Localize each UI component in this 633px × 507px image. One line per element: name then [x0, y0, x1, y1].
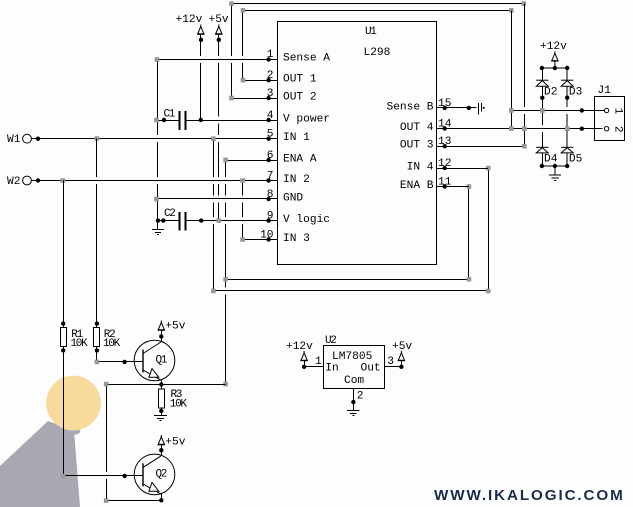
wire vertical OUT2 riser x=231.5	[231, 4, 233, 99]
wire corner square (565,126.4)	[565, 126, 570, 131]
junction dot (268.6,199)	[266, 197, 270, 201]
wire vertical x=106.2 emitters link	[106, 385, 108, 501]
svg-text:1: 1	[611, 108, 623, 115]
wire vertical x=524.3	[524, 4, 526, 147]
junction dot (444.7,107.9)	[443, 106, 447, 110]
junction dot (554.9,166)	[553, 164, 557, 168]
svg-text:W1: W1	[7, 134, 21, 146]
svg-text:D2: D2	[544, 87, 557, 99]
wire corner squares right section	[509, 108, 570, 148]
svg-text:OUT 4: OUT 4	[400, 122, 434, 134]
wire bridge bottom rail y=165.1	[542, 165, 567, 167]
wire bottom wrap y=291	[213, 290, 488, 292]
junction dot (161.3,384.5)	[159, 382, 163, 386]
light beam wedge (decor underlay)	[0, 421, 80, 507]
junction dot (63.2,323.6)	[61, 321, 65, 325]
wire corner square (522,143.9)	[522, 144, 527, 149]
wire Q2 base row y=475.9	[63, 475, 143, 477]
junction dot (38,138.7)	[36, 137, 40, 141]
wire U2 ground stem	[353, 402, 355, 410]
svg-text:C2: C2	[164, 208, 175, 220]
junction dot (268.6,160)	[266, 158, 270, 162]
junction dot (353.4,402.1)	[351, 400, 355, 404]
ground below bridge	[554, 166, 556, 175]
wire pin8 row GND	[157, 198, 277, 200]
wire J1 row1 y=110.5	[511, 110, 604, 112]
wire pin3 row OUT 2	[232, 98, 278, 100]
wire U2 +12v stem	[304, 360, 306, 367]
junction dot (268.6,80.2)	[266, 78, 270, 82]
svg-text:ENA B: ENA B	[400, 180, 434, 192]
junction dot (581.8,128.7)	[580, 127, 584, 131]
wire U2 pin2 bottom stem	[353, 388, 355, 402]
svg-text:Sense B: Sense B	[387, 102, 434, 114]
wire pin15 row Sense B	[437, 107, 477, 109]
wire corner square (229.2,95.7)	[229, 96, 234, 101]
junction dots top section	[36, 38, 271, 242]
svg-text:Out: Out	[361, 362, 381, 374]
resistor R3	[159, 389, 165, 408]
svg-text:ENA A: ENA A	[283, 154, 317, 166]
wire corner square (60.9,473.6)	[61, 474, 66, 479]
U2 junction dots	[302, 365, 404, 405]
junction dot (268.6,120)	[266, 118, 270, 122]
junction dot (468.8,107.9)	[467, 106, 471, 110]
wire corner square (216.5,218.3)	[217, 218, 222, 223]
junction dot (96.9,350.4)	[95, 348, 99, 352]
power arrow +5v U2	[398, 351, 405, 361]
wire pin1 row Sense A	[156, 59, 277, 61]
wire Q1 emitter row y=384.1	[106, 384, 225, 386]
ground under C2	[157, 221, 159, 230]
connector W1	[23, 134, 32, 143]
junction dot (161.3,500.3)	[159, 498, 163, 502]
diode D3	[561, 80, 573, 86]
junction dot (63.2,350.4)	[61, 348, 65, 352]
wire corner square (485.9,165.7)	[486, 166, 491, 171]
junction dot (163.3,220.6)	[161, 218, 165, 222]
svg-text:2: 2	[611, 126, 623, 133]
wire J1 row2 y=128.7	[511, 128, 602, 130]
svg-text:1: 1	[267, 49, 274, 61]
wire vertical x=242.6 IN2 to IN3	[242, 181, 244, 240]
svg-text:Q1: Q1	[156, 355, 168, 367]
connector W2	[23, 176, 32, 185]
junction dot (567.2,166)	[565, 164, 569, 168]
wire pin14 row OUT 4 to J1 pin1 riser	[437, 128, 512, 130]
svg-text:5: 5	[267, 129, 274, 141]
svg-text:IN 1: IN 1	[283, 132, 310, 144]
svg-text:3: 3	[267, 88, 274, 100]
junction dot (124.6,475.9)	[122, 474, 126, 478]
ground below R3	[154, 415, 167, 417]
svg-text:+5v: +5v	[165, 436, 185, 448]
junction dot (401.4,366.8)	[399, 365, 403, 369]
svg-text:IN 3: IN 3	[283, 233, 310, 245]
svg-text:+5v: +5v	[209, 14, 229, 26]
wire left rail x=157.3	[157, 60, 159, 221]
wire pin13 row OUT 3	[437, 146, 525, 148]
junction dot (201.2,220.6)	[199, 218, 203, 222]
wire corner square (154.1,117.7)	[154, 118, 159, 123]
wire pin12 row IN 4	[437, 168, 489, 170]
wire corner squares bottom section	[61, 360, 109, 503]
wire pin6 row ENA A	[226, 160, 278, 162]
capacitor C2 plates	[179, 212, 181, 231]
svg-text:GND: GND	[283, 193, 303, 205]
svg-text:D4: D4	[544, 154, 558, 166]
svg-text:3: 3	[387, 356, 394, 368]
junction dot (581.8,110.5)	[580, 108, 584, 112]
wire corner square (103.9,381.8)	[104, 382, 109, 387]
svg-text:6: 6	[267, 150, 274, 162]
wire corner square (521.5,1.3)	[522, 1, 527, 6]
wire Q2 collector stem	[161, 450, 163, 456]
no-connect mark at pin 15	[478, 103, 480, 114]
wire corner square (229.2,1.3)	[229, 1, 234, 6]
wire U2 pin1 left	[304, 366, 323, 368]
svg-text:+12v: +12v	[540, 41, 567, 53]
wire corner square (509,8.1)	[509, 8, 514, 13]
wire OUT2 top bus y=3.6	[232, 3, 524, 5]
regulator U2 LM7805 box	[324, 346, 385, 389]
wire OUT1 top bus y=10.4	[243, 10, 511, 12]
wire corner square (522,126.4)	[522, 126, 527, 131]
wire vertical x=213.4 IN1 to bottom wrap	[213, 139, 215, 292]
junction dot (541.9,166)	[540, 164, 544, 168]
junction dot (161.3,410.9)	[159, 409, 163, 413]
transistor Q1	[134, 340, 175, 381]
junction dot (218.8,39.8)	[217, 38, 221, 42]
wire corner square (240.3,237.2)	[240, 237, 245, 242]
wire vertical OUT1 riser x=243	[242, 11, 244, 81]
wire pin11 row ENA B	[437, 186, 469, 188]
wire U2 +5v stem	[401, 360, 403, 367]
wire corner square (509,108.2)	[509, 108, 514, 113]
wire vertical x=225.6 ENA A down to Q1 emitter	[225, 160, 227, 385]
J1 pin 2 circle	[604, 127, 608, 131]
svg-text:IN 2: IN 2	[283, 174, 310, 186]
svg-text:IN 4: IN 4	[407, 162, 434, 174]
wire corner square (223.3,381.8)	[223, 382, 228, 387]
wire Q1 emitter stem	[161, 380, 163, 389]
wire corner square (240.7,8.1)	[241, 8, 246, 13]
svg-text:8: 8	[267, 189, 274, 201]
connector J1 box	[595, 97, 625, 141]
junction dot (444.7,168)	[443, 166, 447, 170]
wire R2 column x=96.9	[96, 139, 98, 328]
wire corner square (223.3,276.9)	[223, 277, 228, 282]
resistor R1	[61, 328, 67, 347]
wire vertical x=488.2 IN4 riser	[488, 168, 490, 291]
transistor Q2	[134, 454, 175, 495]
wire Q2 emitter row y=500.6	[106, 500, 163, 502]
junction dot (200.8,120)	[199, 118, 203, 122]
wire +12v stem x=201	[200, 40, 202, 121]
wire Q1 base row y=361.9	[97, 361, 144, 363]
wire bottom wrap y=279.2	[226, 279, 469, 281]
svg-text:D5: D5	[569, 154, 582, 166]
junction dot (268.6,59.5)	[266, 57, 270, 61]
wire R1 column x=63.2	[63, 181, 65, 328]
wire Q1 collector stem	[161, 336, 163, 342]
wire corner square (211.1,136.4)	[211, 136, 216, 141]
junction dots right section	[443, 66, 585, 189]
wire corner squares top section	[61, 1, 527, 386]
junction dot (268.6,98)	[266, 96, 270, 100]
wire pin7 row IN 2 from W2	[32, 180, 278, 182]
wire corner square (466.6,276.9)	[467, 277, 472, 282]
svg-text:D3: D3	[569, 87, 582, 99]
svg-text:L298: L298	[364, 47, 391, 59]
svg-text:2: 2	[357, 390, 364, 402]
svg-text:+12v: +12v	[286, 341, 313, 353]
svg-text:OUT 2: OUT 2	[283, 92, 317, 104]
wire pin9 row V logic with C2 gap	[157, 220, 179, 222]
diode D4	[536, 147, 548, 153]
wire diode column x=541.5	[541, 68, 543, 80]
svg-text:+5v: +5v	[392, 341, 412, 353]
wire corner square (223.3,157.7)	[223, 158, 228, 163]
wire corner square (466.6,184.2)	[467, 184, 472, 189]
power arrow +12v bridge	[551, 51, 558, 68]
wire corner square (94.6,136.2)	[95, 136, 100, 141]
junction dot (268.6,239.5)	[266, 237, 270, 241]
svg-text:In: In	[325, 362, 338, 374]
light glow circle (decor underlay)	[46, 376, 101, 431]
svg-text:10K: 10K	[71, 338, 89, 350]
wire diode column x=567.3	[566, 68, 568, 80]
capacitor C1 plates	[179, 111, 181, 130]
svg-text:OUT 1: OUT 1	[283, 74, 317, 86]
wire U2 pin3 right	[385, 366, 401, 368]
power arrow +12v U2	[300, 351, 307, 361]
junction dots bottom section	[61, 321, 164, 502]
wire corner square (154.6,57.2)	[155, 57, 160, 62]
junction dot (268.6,180.5)	[266, 178, 270, 182]
wire Q2 emitter stem	[161, 494, 163, 500]
wire pin4 row V power with C1 gap	[157, 120, 179, 122]
svg-text:U2: U2	[325, 335, 336, 347]
svg-text:Sense A: Sense A	[283, 53, 330, 65]
svg-text:J1: J1	[598, 85, 612, 97]
svg-text:WWW.IKALOGIC.COM: WWW.IKALOGIC.COM	[434, 487, 625, 504]
svg-text:LM7805: LM7805	[332, 351, 372, 363]
junction dot (124.6,361.9)	[122, 360, 126, 364]
junction dot (161.3,450.2)	[159, 448, 163, 452]
svg-text:10: 10	[260, 230, 274, 242]
wire corner square (485.9,288.7)	[486, 289, 491, 294]
wire +5v stem x=218.8	[218, 40, 220, 221]
junction dot (554.9,68)	[553, 66, 557, 70]
svg-text:7: 7	[267, 171, 274, 183]
J1 pin 1 circle	[604, 108, 608, 112]
wire corner square (509,126.2)	[509, 126, 514, 131]
junction dot (268.6,138.7)	[266, 137, 270, 141]
svg-text:4: 4	[267, 110, 274, 122]
junction dot (567.2,97.7)	[565, 96, 569, 100]
svg-text:+5v: +5v	[165, 320, 185, 332]
svg-text:OUT 3: OUT 3	[400, 140, 434, 152]
svg-text:V logic: V logic	[283, 214, 330, 226]
wire pin2 row OUT 1	[243, 80, 278, 82]
ground under U2	[347, 410, 359, 412]
junction dot (164,120)	[162, 118, 166, 122]
diode D2	[536, 80, 548, 86]
junction dot (38,180.5)	[36, 178, 40, 182]
junction dot (444.7,128.5)	[443, 126, 447, 130]
junction dot (161.3,336.4)	[159, 334, 163, 338]
junction dot (567.2,68)	[565, 66, 569, 70]
junction dot (268.6,220.6)	[266, 218, 270, 222]
junction dot (542.3,97.7)	[540, 96, 544, 100]
svg-text:10K: 10K	[170, 399, 188, 411]
svg-text:2: 2	[267, 70, 274, 82]
svg-text:10K: 10K	[103, 338, 121, 350]
wire pin5 row IN 1 from W1	[32, 138, 278, 140]
wire +12v bridge rail y=67.2	[542, 67, 567, 69]
wire corner square (60.5,178.2)	[61, 178, 66, 183]
wire corner square (211.1,288.7)	[211, 289, 216, 294]
junction dot (444.7,146.2)	[443, 144, 447, 148]
svg-text:1: 1	[315, 356, 322, 368]
svg-text:U1: U1	[365, 26, 377, 38]
resistor R2	[94, 328, 100, 347]
wire corner square (240.7,77.9)	[241, 78, 246, 83]
junction dot (96.9,323.6)	[95, 321, 99, 325]
wire R3 bottom lead	[161, 408, 163, 415]
junction dot (304.1,366.8)	[302, 365, 306, 369]
wire corner square (240.3,178.2)	[240, 178, 245, 183]
wire vertical x=511.3	[511, 10, 513, 128]
diode D5	[561, 147, 573, 153]
svg-text:+12v: +12v	[176, 14, 203, 26]
wire corner square (94.6,359.6)	[95, 360, 100, 365]
power arrow +5v Q2	[158, 435, 165, 450]
wire corner square (540,108.2)	[540, 108, 545, 113]
junction dot (541.9,68)	[540, 66, 544, 70]
power arrow +5v Q1	[158, 321, 165, 337]
power arrow +12v top	[197, 25, 204, 40]
junction dot (201,39.8)	[199, 38, 203, 42]
wire corner square (103.9,498.3)	[104, 498, 109, 503]
svg-text:V power: V power	[283, 114, 330, 126]
svg-text:9: 9	[267, 211, 274, 223]
svg-text:Q2: Q2	[156, 469, 167, 481]
junction dot (444.7,186.5)	[443, 184, 447, 188]
power arrow +5v top	[215, 25, 222, 40]
svg-text:W2: W2	[7, 176, 20, 188]
svg-text:Com: Com	[344, 375, 364, 387]
wire vertical x=468.9 ENA B riser	[468, 187, 470, 280]
wire corner square (154.1,196.7)	[154, 197, 159, 202]
wire pin10 row IN 3	[243, 239, 278, 241]
junction dot (158,220.6)	[156, 218, 160, 222]
op-amp U1 L298 body box	[278, 22, 437, 265]
